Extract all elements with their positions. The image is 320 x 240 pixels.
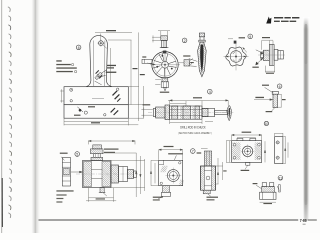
svg-text:10: 10	[265, 122, 269, 126]
chuck G bottom dims	[170, 120, 213, 124]
item balloon for F	[277, 84, 282, 89]
bracket M base	[260, 192, 276, 199]
assembly H nut stack on top	[90, 145, 103, 161]
item balloon for M	[278, 176, 283, 181]
side view L dims	[275, 133, 288, 164]
bracket A tombstone body	[86, 36, 112, 87]
left page-edge line	[1, 0, 3, 233]
binding perforation marks	[8, 7, 11, 218]
bracket A base plate front view	[64, 87, 128, 105]
side part left of H	[62, 158, 70, 187]
bracket M upper tabs	[262, 183, 275, 193]
svg-text:DRILL ROD IN CHUCK: DRILL ROD IN CHUCK	[180, 126, 206, 130]
wheel B bolt on top	[160, 36, 169, 48]
drill C head	[199, 33, 205, 42]
part F right dim	[278, 94, 286, 107]
item number 8 balloon	[76, 45, 81, 50]
wheel B handle stub left	[142, 56, 155, 65]
assembly H bottom dims	[86, 188, 116, 202]
chuck G second top dim	[170, 101, 186, 106]
block I top leader flag	[168, 153, 183, 160]
chuck G left dims	[141, 104, 152, 117]
bracket A dim arrowheads/ticks	[91, 30, 145, 123]
wheel B top dims	[152, 31, 170, 43]
item balloon for H	[75, 152, 80, 157]
wheel B bottom set-screw detail	[155, 78, 169, 93]
item balloon near wheel	[182, 38, 187, 43]
wheel B rim	[150, 50, 180, 80]
wheel B right key section	[178, 55, 193, 66]
title text block bottom-left	[56, 190, 73, 202]
bracket A dimension lines	[60, 32, 144, 125]
bracket A bottom view	[64, 105, 128, 119]
base plate holes	[70, 88, 121, 102]
svg-text:( SECTION THRU CHUCK ASSEMBLY: ( SECTION THRU CHUCK ASSEMBLY )	[178, 131, 212, 135]
block I stem below	[153, 186, 171, 201]
block I bore circles	[160, 162, 181, 185]
shaft E flange	[269, 45, 274, 66]
chuck G flange	[165, 105, 170, 120]
chuck G tail shaft	[202, 108, 228, 116]
bracket A mid detail + leaders	[95, 48, 111, 86]
side view L plate	[275, 137, 283, 164]
svg-text:8: 8	[78, 46, 80, 50]
knob D key mark	[234, 41, 237, 44]
bracket A top hole	[97, 40, 106, 49]
item balloon for knob	[248, 34, 253, 39]
chuck G top dim	[168, 97, 228, 108]
item balloon for K	[264, 121, 268, 126]
svg-text:5: 5	[76, 153, 78, 157]
chuck G centerline	[148, 112, 234, 114]
svg-text:7-99: 7-99	[300, 218, 307, 224]
right page-stack grey strip	[303, 17, 310, 220]
block I hatched patches	[160, 166, 184, 186]
assembly H right dims	[103, 153, 145, 197]
channel J top tab	[197, 149, 212, 166]
shaft E bottom dim	[265, 66, 275, 74]
block K hatched side bands	[232, 142, 261, 160]
assembly H main body section	[83, 161, 112, 188]
bracket M bottom ticks	[260, 202, 276, 204]
channel J right dims	[216, 158, 227, 184]
header text line 1	[274, 17, 299, 19]
chuck G main body	[170, 106, 202, 119]
block I dims	[150, 146, 183, 186]
shaft E dims above	[262, 37, 273, 50]
item balloon below drill	[208, 89, 213, 94]
shaft E left leaders	[252, 50, 263, 68]
wheel B key detail at hub top	[163, 51, 167, 54]
channel J bottom leader	[207, 194, 219, 201]
assembly H left leader arrow	[71, 171, 82, 173]
drill C left leader marks	[188, 59, 197, 67]
assembly H top-right notes	[104, 149, 119, 153]
svg-text:9: 9	[249, 35, 251, 39]
bracket M leaders	[253, 183, 281, 192]
part F left dim	[254, 97, 273, 101]
knob D lobed wheel	[224, 42, 249, 70]
chuck G left end cap	[153, 107, 165, 118]
svg-text:2: 2	[184, 39, 186, 43]
bottom view holes and details	[74, 106, 118, 116]
block K body	[232, 138, 262, 165]
item balloon for I	[191, 149, 196, 154]
assembly H shaft to right	[111, 165, 137, 183]
block I square body	[159, 160, 183, 185]
assembly H bottom stem fitting	[99, 188, 107, 197]
note text block top-left	[56, 60, 77, 73]
svg-text:11: 11	[279, 176, 283, 180]
knob D dims	[228, 37, 247, 52]
shaft E right steps	[258, 49, 285, 60]
part F vertical plate	[272, 91, 278, 107]
channel J body	[201, 166, 216, 194]
block K dims	[226, 132, 266, 171]
part F leaders	[262, 85, 275, 113]
block K bolt holes	[233, 143, 260, 159]
wheel B spokes	[153, 53, 177, 76]
block K bore circles	[241, 145, 255, 159]
leader above side part	[60, 153, 68, 161]
chuck G drill bit at right	[227, 106, 232, 121]
faint mark under page number	[303, 224, 306, 225]
svg-text:4: 4	[209, 90, 211, 94]
footer rule	[39, 219, 299, 221]
header text line 2	[274, 21, 296, 22]
publisher logo	[266, 17, 271, 24]
centre fold shading band	[32, 0, 41, 233]
svg-text:6: 6	[279, 85, 281, 89]
assembly H top dim line	[89, 140, 136, 144]
shaft E hub left	[261, 50, 270, 60]
drill C fluted body	[198, 42, 207, 77]
svg-text:7: 7	[192, 150, 194, 154]
assembly H centerline	[76, 173, 138, 175]
